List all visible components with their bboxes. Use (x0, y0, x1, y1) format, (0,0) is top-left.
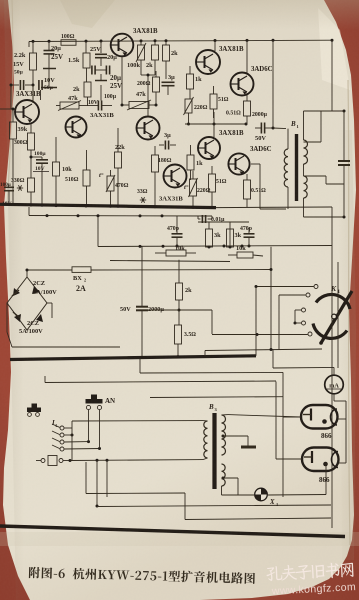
wire frame y382 (45, 376, 276, 383)
wire left input lead (0, 42, 29, 110)
ground bus thick (0, 204, 332, 210)
transistor Q4 3AX81B mid (137, 117, 160, 140)
wire x185 (86, 462, 185, 520)
transformer B1 label (290, 120, 300, 129)
wire vertical x101 (100, 85, 102, 101)
wire frame y373 (140, 359, 283, 374)
resistor R29 10k a (155, 245, 196, 256)
push switch left (27, 404, 41, 417)
resistor R15 200ohm (137, 71, 160, 100)
resistor R10 22k (115, 128, 126, 206)
resistor R24 0.51ohm a (226, 93, 251, 124)
thick bottom border (0, 526, 345, 537)
wire bridge to bus (7, 303, 120, 347)
transformer B3 primary (203, 421, 208, 460)
wire x97 drop (96, 460, 99, 507)
resistor R0 100ohm (61, 34, 76, 45)
resistor R25 51ohm b (209, 166, 227, 207)
wire x256 drop (255, 287, 257, 356)
thermistor R19 220ohm t (184, 171, 211, 206)
capacitor C2 50u15V (13, 61, 24, 90)
wire x283 vertical (282, 372, 284, 497)
power bus thick (10, 356, 256, 360)
wire jack1 to line (64, 421, 203, 428)
fuse BX2 2A (27, 267, 271, 293)
resistor R32 3.5ohm (175, 310, 197, 358)
capacitor C7 20u25V c (92, 66, 122, 91)
resistor R26 0.51ohm b (244, 174, 267, 207)
capacitor C4 100u10V (30, 151, 50, 205)
wire y368 meter feed (273, 367, 334, 375)
tube V2 866 b (276, 448, 346, 485)
potentiometer R16 47k b (122, 91, 156, 110)
potentiometer R7 47k (56, 95, 86, 111)
wire rail drop right (332, 40, 344, 111)
wire vertical x122 (121, 56, 124, 106)
wire vertical x156 (155, 100, 158, 107)
wire bottom y520 (185, 518, 331, 520)
ground plate (241, 436, 256, 447)
resistor R5 1.5k (68, 42, 90, 83)
connector plug (36, 456, 72, 466)
push switch AN (86, 395, 116, 410)
resistor R14 2k b (163, 41, 179, 79)
resistor R13 2k a (146, 41, 159, 75)
wire x271 B plus (270, 247, 273, 351)
capacitor C1 20u25V (41, 42, 63, 88)
wire jack4 (64, 410, 101, 450)
capacitor C11 2000u50V (252, 112, 275, 142)
resistor R4 330ohm (11, 178, 35, 205)
transformer B3 secondary bottom (222, 464, 255, 495)
wire collector to B1 top (273, 40, 286, 128)
wire jack3 (64, 410, 90, 444)
transistor Q9 3AD6C b (228, 146, 271, 175)
wire y460 to B1 (70, 459, 203, 462)
transformer B1 secondary (304, 110, 346, 219)
transistor Q3 3AX81B top (111, 28, 158, 56)
resistor R27 3k a (206, 222, 222, 249)
resistor R2 39k (10, 108, 28, 205)
resistor R23 51ohm a (210, 86, 229, 118)
resistor R20 1k a (187, 66, 203, 99)
rectifier bridge 2CZ (7, 269, 57, 336)
watermark kongfz (266, 561, 356, 597)
transistor Q2 3AX31B (66, 112, 115, 138)
capacitor C16 2000u50V b (120, 247, 164, 359)
transistor Q7 3AX81B b (198, 130, 244, 159)
wire line y222 (198, 221, 249, 223)
capacitor C6 20u25V b (90, 41, 117, 66)
transistor Q8 3AD6C (231, 40, 273, 95)
wire x107 drop (106, 460, 108, 497)
wire line y216 (29, 207, 212, 217)
capacitor C9 3u a (162, 74, 176, 95)
wire node base Q1 (10, 70, 35, 109)
resistor R22 1k b (187, 145, 203, 180)
wire bottom y507 (97, 505, 331, 507)
resistor R8 10k (53, 137, 73, 205)
capacitor C14 470p a (167, 216, 183, 248)
wire line y246 (98, 245, 332, 248)
wire line y260 (110, 261, 230, 262)
transformer B3 core (212, 413, 216, 489)
wire driver junction (141, 74, 155, 117)
resistor R18 33ohm (137, 183, 155, 206)
potentiometer R21 220ohm (184, 97, 208, 126)
caption (29, 567, 255, 584)
wire y350 k1 drop (205, 349, 322, 368)
wire jack2 (64, 428, 73, 460)
capacitor C8 100u (86, 94, 117, 111)
wire y310 (142, 310, 212, 334)
transistor Q5 3AX31B (159, 165, 187, 203)
capacitor C15 470p b (240, 226, 255, 248)
selector switch K1 (302, 284, 353, 345)
resistor R3 300ohm (14, 124, 35, 178)
resistor R9 510ohm (65, 150, 90, 205)
resistor R17 180ohm (152, 146, 172, 183)
wire K1 contact feeds (212, 285, 314, 350)
transformer B3 label (208, 403, 218, 412)
wire stub y216 drop (97, 216, 99, 247)
potentiometer R12 100k (127, 41, 146, 75)
transistor Q6 3AX81B (196, 41, 244, 75)
resistor R30 10k b (228, 245, 263, 258)
wire x276 vertical (275, 382, 277, 460)
jack I1 contacts (51, 420, 64, 451)
wire bus right drop (331, 207, 333, 248)
capacitor C10 3u b (159, 132, 176, 150)
tube V1 866 (283, 405, 346, 440)
transformer B3 secondary top (222, 415, 302, 455)
wire y397 (150, 396, 283, 399)
wire right border x338 (337, 262, 339, 368)
meter mA (325, 375, 346, 401)
lamp X1 (255, 463, 326, 507)
wire mid coupling (185, 112, 248, 137)
capacitor C3 50u10V (39, 77, 55, 100)
wire x346 tubes (345, 401, 347, 463)
transistor Q1 3AX31B (15, 85, 41, 124)
thermistor R11 470ohm t (99, 170, 129, 206)
wire right border x332 (331, 248, 333, 528)
resistor R31 2k c (176, 260, 193, 312)
transformer B1 primary (284, 129, 288, 209)
resistor R6 2k (73, 82, 91, 106)
transformer B1 core (295, 134, 298, 201)
capacitor C12 output (338, 111, 350, 217)
resistor R1 2.2k (14, 42, 37, 71)
capacitor C5 100u input (0, 182, 14, 207)
wire top supply rail (29, 39, 334, 43)
wire collector to B1 bottom (251, 164, 286, 209)
capacitor C13 0.01u (198, 215, 225, 223)
resistor R28 3k b (227, 222, 242, 249)
